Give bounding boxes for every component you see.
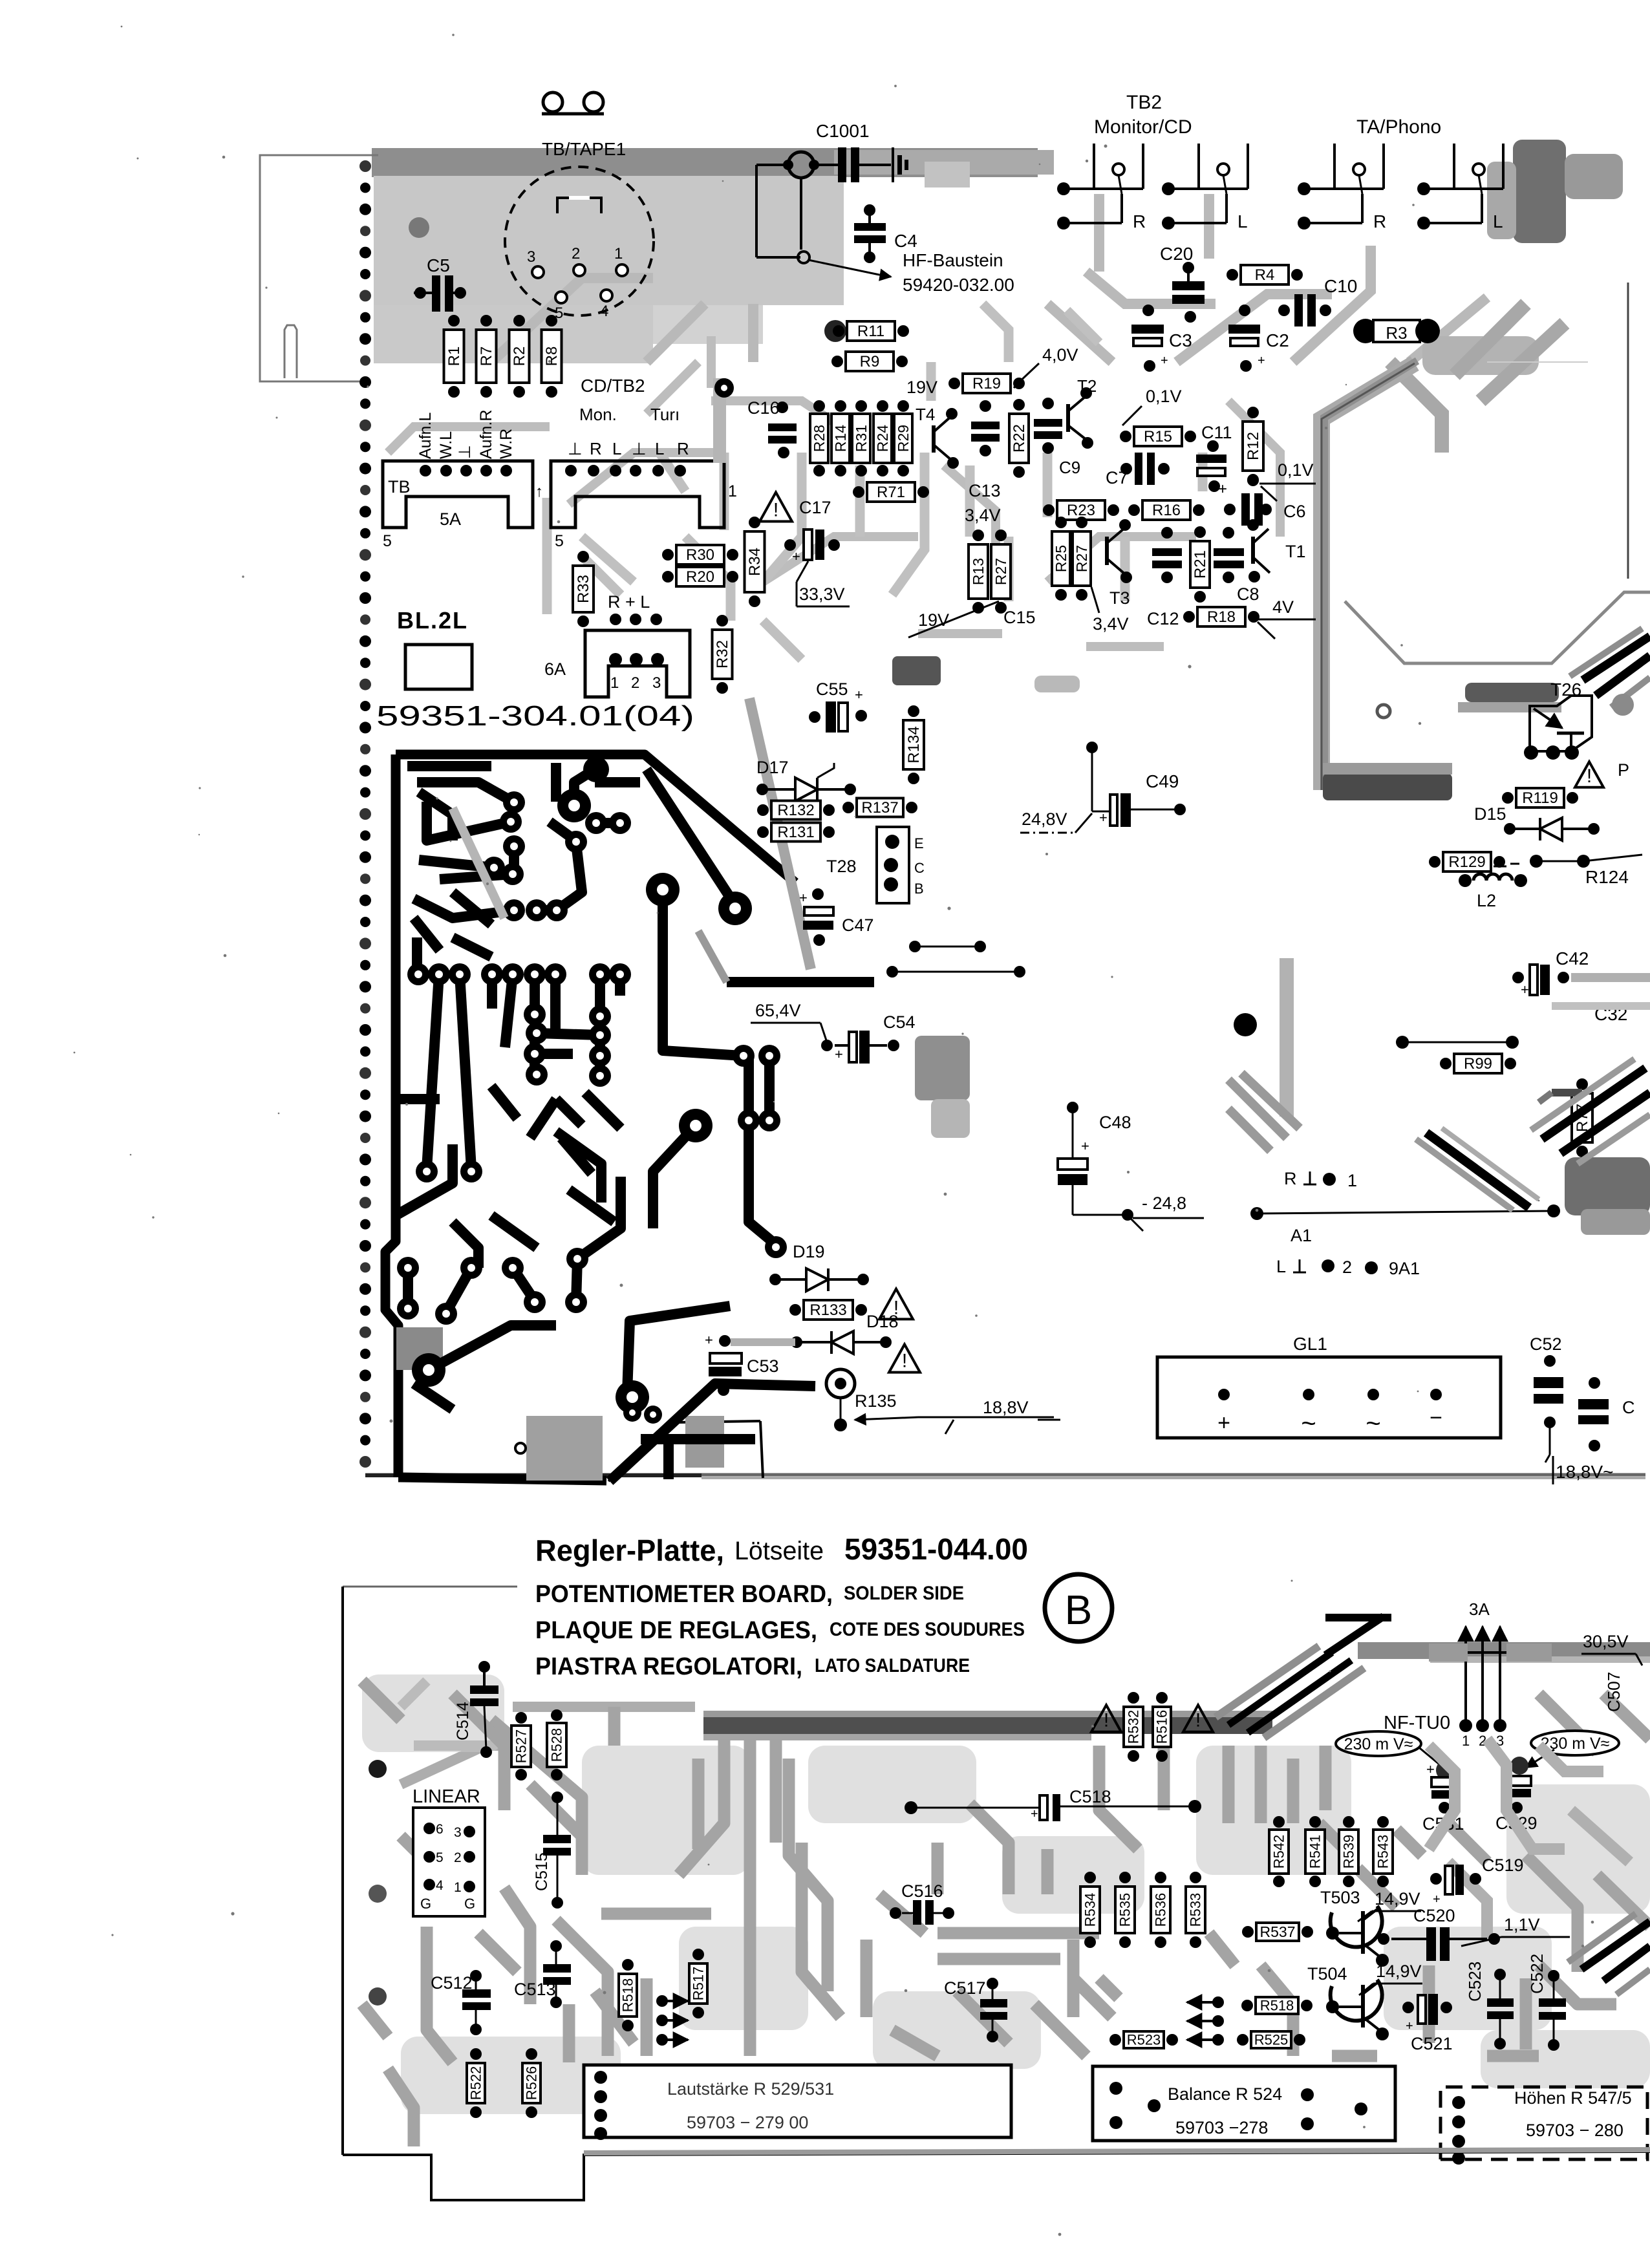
svg-text:TB/TAPE1: TB/TAPE1 bbox=[542, 139, 626, 159]
capacitor C3 electrolytic bbox=[1131, 325, 1164, 334]
dark blob left of R11 bbox=[824, 320, 846, 342]
svg-text:59351-044.00: 59351-044.00 bbox=[844, 1532, 1028, 1566]
svg-text:C513: C513 bbox=[514, 1980, 556, 1999]
svg-text:!: ! bbox=[773, 500, 778, 521]
wire pair mid 2 bbox=[886, 966, 898, 978]
svg-text:R33: R33 bbox=[575, 575, 592, 603]
top band right segment bbox=[1358, 1642, 1650, 1659]
connector TB 5A bbox=[383, 461, 533, 528]
svg-text:R522: R522 bbox=[468, 2066, 484, 2101]
svg-text:33,3V: 33,3V bbox=[799, 584, 845, 604]
svg-text:C54: C54 bbox=[883, 1012, 916, 1032]
gray traces NF area bbox=[1429, 1739, 1629, 1940]
svg-text:~: ~ bbox=[1366, 1409, 1380, 1438]
svg-text:4: 4 bbox=[436, 1878, 444, 1893]
svg-text:T28: T28 bbox=[826, 857, 857, 876]
svg-text:+: + bbox=[799, 890, 808, 906]
C1001 output symbol bbox=[892, 147, 894, 182]
capacitor C49 bbox=[1086, 742, 1098, 753]
resistor R13 bbox=[969, 530, 988, 614]
black diag stripes right bottom board bbox=[1581, 1921, 1650, 1981]
BL.2L box bbox=[405, 645, 472, 689]
capacitor C9 bbox=[1034, 419, 1062, 427]
connector CD/TB2 bbox=[551, 461, 724, 528]
resistor R20 bbox=[662, 567, 738, 586]
svg-text:W.L: W.L bbox=[437, 431, 455, 459]
svg-text:R21: R21 bbox=[1192, 550, 1209, 579]
resistor R14 bbox=[831, 400, 850, 476]
resistor R22 bbox=[1009, 399, 1029, 478]
svg-text:R534: R534 bbox=[1082, 1893, 1098, 1927]
svg-text:R: R bbox=[590, 439, 602, 458]
gray band vertical bbox=[1280, 958, 1294, 1117]
svg-text:TB2: TB2 bbox=[1126, 92, 1162, 113]
svg-text:4: 4 bbox=[600, 303, 608, 320]
svg-text:R: R bbox=[1284, 1169, 1297, 1188]
svg-text:C47: C47 bbox=[842, 915, 874, 935]
svg-text:W.R: W.R bbox=[497, 429, 515, 459]
svg-text:R27: R27 bbox=[1073, 545, 1090, 572]
svg-text:NF-TU0: NF-TU0 bbox=[1384, 1713, 1450, 1733]
oval 230mV left bbox=[1336, 1731, 1421, 1756]
svg-text:R133: R133 bbox=[809, 1301, 846, 1319]
resistor R542 bbox=[1269, 1816, 1289, 1887]
dark smudge top right bbox=[1513, 140, 1566, 243]
svg-text:C55: C55 bbox=[816, 679, 848, 699]
svg-text:R3: R3 bbox=[1386, 323, 1407, 343]
svg-text:Turı: Turı bbox=[650, 405, 680, 424]
svg-text:Balance R 524: Balance R 524 bbox=[1168, 2084, 1282, 2104]
svg-text:R516: R516 bbox=[1154, 1710, 1170, 1744]
svg-text:T3: T3 bbox=[1109, 588, 1130, 608]
connector 6A bbox=[585, 630, 690, 697]
svg-text:R129: R129 bbox=[1448, 853, 1485, 871]
svg-text:C520: C520 bbox=[1413, 1906, 1455, 1925]
svg-text:R + L: R + L bbox=[608, 592, 650, 612]
svg-text:Lautstärke R 529/531: Lautstärke R 529/531 bbox=[667, 2079, 834, 2099]
svg-text:R535: R535 bbox=[1117, 1893, 1133, 1927]
svg-text:C521: C521 bbox=[1411, 2034, 1453, 2053]
wire A1 bbox=[1250, 1207, 1263, 1220]
svg-text:TA/Phono: TA/Phono bbox=[1356, 116, 1441, 138]
svg-text:- 24,8: - 24,8 bbox=[1142, 1193, 1186, 1213]
black diag top right corner bottom board bbox=[1325, 1616, 1391, 1655]
svg-text:C516: C516 bbox=[901, 1881, 943, 1901]
resistor R534 bbox=[1080, 1872, 1100, 1948]
resistor R137 bbox=[842, 798, 917, 817]
svg-text:R135: R135 bbox=[855, 1391, 897, 1411]
resistor R132 bbox=[757, 801, 835, 820]
svg-text:59703 − 280: 59703 − 280 bbox=[1526, 2121, 1623, 2140]
board edge outline with slot (top left) bbox=[260, 155, 378, 381]
svg-text:3: 3 bbox=[454, 1825, 462, 1840]
svg-text:POTENTIOMETER BOARD,: POTENTIOMETER BOARD, bbox=[535, 1581, 833, 1608]
svg-text:R523: R523 bbox=[1127, 2032, 1161, 2048]
smudge under R3 bbox=[1422, 336, 1539, 375]
diag gray bands right of jacks bbox=[1390, 304, 1565, 453]
svg-text:59351-304.01(04): 59351-304.01(04) bbox=[376, 700, 694, 732]
svg-text:+: + bbox=[835, 1046, 843, 1062]
svg-text:R32: R32 bbox=[714, 640, 731, 669]
wire above R99 bbox=[1396, 1036, 1409, 1049]
svg-text:30,5V: 30,5V bbox=[1583, 1632, 1629, 1651]
svg-text:+: + bbox=[792, 548, 800, 564]
resistor R2 bbox=[509, 315, 530, 398]
svg-text:⊥: ⊥ bbox=[456, 445, 474, 459]
resistor R518 bbox=[619, 1959, 637, 2031]
svg-text:C53: C53 bbox=[747, 1356, 779, 1376]
warning triangle P bbox=[1575, 762, 1603, 787]
resistor R99 bbox=[1440, 1054, 1516, 1073]
resistor R536 bbox=[1151, 1872, 1170, 1948]
capacitor C529 electrolytic bbox=[1510, 1757, 1528, 1775]
svg-text:C16: C16 bbox=[747, 398, 780, 418]
svg-text:HF-Baustein: HF-Baustein bbox=[903, 250, 1003, 270]
svg-text:R527: R527 bbox=[513, 1729, 530, 1764]
svg-text:Aufn.R: Aufn.R bbox=[477, 410, 495, 459]
svg-text:3,4V: 3,4V bbox=[965, 506, 1001, 525]
wire pair mid bbox=[909, 941, 921, 952]
svg-text:C15: C15 bbox=[1003, 608, 1036, 627]
resistor R537 bbox=[1242, 1923, 1313, 1941]
svg-text:⊥: ⊥ bbox=[632, 439, 647, 458]
svg-text:C11: C11 bbox=[1201, 423, 1232, 442]
svg-text:59703 − 279 00: 59703 − 279 00 bbox=[687, 2113, 808, 2132]
svg-text:D15: D15 bbox=[1474, 804, 1506, 824]
resistor R32 bbox=[712, 615, 733, 694]
svg-text:2: 2 bbox=[631, 674, 639, 692]
svg-text:~: ~ bbox=[1301, 1409, 1316, 1438]
svg-text:R518: R518 bbox=[620, 1978, 636, 2013]
svg-text:R526: R526 bbox=[524, 2066, 540, 2101]
svg-text:R29: R29 bbox=[895, 425, 912, 452]
svg-text:19V: 19V bbox=[906, 378, 937, 397]
svg-text:CD/TB2: CD/TB2 bbox=[581, 376, 645, 396]
arrow pads left-pointing bbox=[1212, 1996, 1224, 2008]
svg-text:R22: R22 bbox=[1011, 424, 1028, 453]
svg-text:6A: 6A bbox=[544, 659, 566, 679]
coil L2 bbox=[1473, 874, 1512, 881]
svg-text:A1: A1 bbox=[1291, 1226, 1312, 1245]
svg-text:!: ! bbox=[1587, 765, 1592, 787]
svg-text:R532: R532 bbox=[1126, 1710, 1142, 1744]
svg-text:1: 1 bbox=[1462, 1733, 1470, 1749]
svg-text:R19: R19 bbox=[972, 375, 1001, 392]
HF-Baustein callout bbox=[808, 260, 879, 275]
pad R135 bbox=[826, 1369, 855, 1398]
resistor R24 bbox=[873, 400, 892, 476]
resistor R9 bbox=[831, 352, 908, 371]
resistor R27 bbox=[1073, 517, 1091, 601]
resistor R21 bbox=[1190, 526, 1210, 603]
warning triangle mid bbox=[760, 493, 792, 522]
svg-text:1: 1 bbox=[614, 245, 623, 262]
svg-text:−: − bbox=[1430, 1406, 1442, 1430]
module bottom dark edge bbox=[1323, 773, 1452, 800]
resistor R526 bbox=[522, 2048, 541, 2118]
svg-text:R18: R18 bbox=[1207, 608, 1236, 626]
resistor R30 bbox=[662, 545, 738, 564]
svg-text:+: + bbox=[1099, 809, 1108, 826]
svg-text:Höhen R 547/5: Höhen R 547/5 bbox=[1514, 2088, 1632, 2108]
resistor R23 bbox=[1043, 500, 1119, 520]
svg-text:T504: T504 bbox=[1307, 1964, 1347, 1984]
dark smudge right of A1 bbox=[1565, 1157, 1650, 1215]
capacitor C6 bbox=[1241, 493, 1250, 526]
svg-text:2: 2 bbox=[572, 245, 580, 262]
svg-text:C20: C20 bbox=[1160, 244, 1193, 264]
svg-text:Aufn.L: Aufn.L bbox=[416, 412, 434, 459]
left edge pads bottom board bbox=[369, 1760, 387, 1778]
svg-text:R13: R13 bbox=[970, 558, 987, 585]
warning triangle bottom 1 bbox=[1091, 1705, 1121, 1731]
gray fan top left bottom board bbox=[401, 1681, 695, 1784]
svg-text:Monitor/CD: Monitor/CD bbox=[1094, 116, 1192, 138]
capacitor C531 electrolytic bbox=[1436, 1760, 1457, 1781]
DIN pins bbox=[532, 266, 544, 278]
warning triangle bottom 2 bbox=[1183, 1705, 1213, 1731]
resistor R543 bbox=[1373, 1816, 1393, 1887]
trace block pads bbox=[397, 756, 787, 1453]
svg-text:COTE DES SOUDURES: COTE DES SOUDURES bbox=[830, 1619, 1025, 1640]
svg-text:R525: R525 bbox=[1254, 2032, 1289, 2048]
svg-text:C507: C507 bbox=[1604, 1672, 1623, 1712]
resistor R533 bbox=[1186, 1872, 1205, 1948]
svg-text:+: + bbox=[1426, 1761, 1435, 1777]
resistor R532 bbox=[1124, 1692, 1143, 1762]
svg-text:C5: C5 bbox=[427, 255, 450, 275]
label 0,1V at R12 bbox=[1247, 475, 1259, 486]
svg-text:D19: D19 bbox=[793, 1242, 825, 1261]
jack TA R bbox=[1298, 144, 1386, 231]
svg-text:PLAQUE DE REGLAGES,: PLAQUE DE REGLAGES, bbox=[535, 1617, 817, 1644]
svg-text:R99: R99 bbox=[1464, 1055, 1492, 1073]
svg-text:R518: R518 bbox=[1260, 1998, 1294, 2014]
svg-text:C515: C515 bbox=[533, 1852, 551, 1891]
resistor R25 bbox=[1052, 517, 1070, 601]
edge dot column bbox=[359, 160, 371, 1468]
capacitor C13 bbox=[971, 422, 1000, 429]
svg-text:R25: R25 bbox=[1053, 545, 1069, 572]
svg-text:R1: R1 bbox=[445, 347, 463, 367]
black pad mid bbox=[1234, 1013, 1257, 1036]
svg-text:R14: R14 bbox=[832, 425, 849, 452]
resistor R11 bbox=[833, 321, 909, 341]
resistor R33 bbox=[573, 551, 594, 627]
svg-text:R8: R8 bbox=[543, 347, 561, 367]
svg-text:+: + bbox=[1218, 480, 1227, 498]
svg-text:LINEAR: LINEAR bbox=[412, 1786, 480, 1807]
resistor R518 bbox=[1241, 1997, 1312, 2014]
svg-text:1,1V: 1,1V bbox=[1504, 1915, 1540, 1934]
resistor R1 bbox=[444, 315, 464, 398]
right board edge line bbox=[1627, 283, 1629, 579]
svg-text:4,0V: 4,0V bbox=[1042, 345, 1078, 365]
svg-text:L: L bbox=[1493, 211, 1503, 231]
svg-text:1: 1 bbox=[1347, 1171, 1357, 1190]
svg-text:+: + bbox=[1521, 981, 1529, 998]
resistor R4 bbox=[1227, 265, 1303, 284]
resistor R535 bbox=[1115, 1872, 1135, 1948]
resistor R8 bbox=[542, 315, 562, 398]
wire 18,8V bbox=[855, 1417, 918, 1420]
via pad above R30 bbox=[713, 378, 726, 463]
jack TA L bbox=[1417, 144, 1503, 231]
resistor R528 bbox=[547, 1709, 566, 1781]
resistor R18 bbox=[1183, 607, 1259, 626]
potentiometer box Balance bbox=[1093, 2066, 1395, 2141]
resistor R29 bbox=[894, 400, 912, 476]
resistor R7 bbox=[477, 315, 497, 398]
svg-text:R27: R27 bbox=[992, 558, 1009, 585]
svg-text:GL1: GL1 bbox=[1293, 1334, 1327, 1354]
svg-text:B: B bbox=[914, 881, 924, 897]
svg-text:65,4V: 65,4V bbox=[755, 1001, 801, 1020]
svg-text:+: + bbox=[855, 687, 863, 703]
svg-text:B: B bbox=[1065, 1587, 1093, 1633]
oval 230mV right bbox=[1531, 1731, 1619, 1755]
svg-text:L: L bbox=[1276, 1257, 1286, 1276]
svg-text:R2: R2 bbox=[511, 347, 528, 367]
svg-text:5A: 5A bbox=[440, 509, 461, 529]
transistor T3 bbox=[1105, 537, 1109, 565]
resistor R522 bbox=[467, 2048, 485, 2118]
resistor R12 bbox=[1243, 407, 1263, 486]
black chevron stripes near T26 bbox=[1583, 636, 1650, 696]
capacitor C54 electrolytic bbox=[849, 1032, 857, 1062]
svg-text:C: C bbox=[914, 860, 925, 876]
svg-text:59420-032.00: 59420-032.00 bbox=[903, 275, 1014, 295]
bottom board outline bbox=[343, 1586, 517, 1588]
gray trace C53 to D18 bbox=[731, 1338, 795, 1346]
svg-text:18,8V: 18,8V bbox=[983, 1398, 1029, 1417]
svg-text:R12: R12 bbox=[1245, 432, 1262, 460]
svg-text:R4: R4 bbox=[1255, 266, 1275, 284]
trace block gray fills bbox=[396, 1327, 443, 1370]
svg-text:R541: R541 bbox=[1307, 1835, 1323, 1869]
resistor R28 bbox=[810, 400, 828, 476]
resistor R129 bbox=[1429, 852, 1505, 872]
svg-text:3A: 3A bbox=[1469, 1599, 1490, 1619]
svg-text:5: 5 bbox=[436, 1850, 444, 1865]
copper trace block outline bbox=[385, 754, 795, 1481]
potentiometer box Lautstaerke bbox=[584, 2065, 1011, 2137]
svg-text:2: 2 bbox=[454, 1850, 462, 1865]
svg-text:!: ! bbox=[1195, 1710, 1201, 1731]
svg-text:6: 6 bbox=[436, 1822, 444, 1837]
svg-text:C: C bbox=[1622, 1398, 1635, 1417]
potentiometer box Hoehen dashed bbox=[1441, 2087, 1647, 2159]
svg-text:R30: R30 bbox=[686, 546, 714, 564]
svg-text:R132: R132 bbox=[777, 802, 814, 819]
svg-text:R134: R134 bbox=[905, 726, 923, 763]
resistor R134 bbox=[903, 705, 924, 784]
resistor R27 bbox=[991, 530, 1011, 614]
svg-text:L2: L2 bbox=[1477, 891, 1496, 910]
svg-text:R20: R20 bbox=[686, 568, 714, 586]
svg-text:14,9V: 14,9V bbox=[1376, 1962, 1422, 1981]
svg-text:C8: C8 bbox=[1237, 584, 1259, 604]
svg-text:R16: R16 bbox=[1152, 502, 1181, 519]
svg-text:C3: C3 bbox=[1169, 330, 1192, 350]
svg-text:C17: C17 bbox=[799, 498, 831, 517]
resistor R133 bbox=[789, 1300, 867, 1320]
svg-text:C514: C514 bbox=[454, 1702, 472, 1740]
resistor R525 bbox=[1237, 2031, 1305, 2048]
big gray pad bbox=[409, 217, 429, 238]
capacitor C51 bbox=[1578, 1399, 1609, 1409]
svg-text:+: + bbox=[705, 1332, 713, 1348]
svg-text:L: L bbox=[1237, 211, 1248, 231]
svg-text:C13: C13 bbox=[969, 481, 1001, 500]
capacitor C4 bbox=[864, 204, 875, 216]
extra gray traces cluster bbox=[547, 304, 1203, 659]
svg-text:R536: R536 bbox=[1153, 1893, 1169, 1927]
svg-text:4V: 4V bbox=[1272, 597, 1294, 617]
svg-text:1: 1 bbox=[454, 1880, 462, 1895]
svg-text:E: E bbox=[914, 835, 924, 851]
svg-text:R137: R137 bbox=[861, 799, 898, 817]
dark band right of module bbox=[1465, 683, 1559, 702]
svg-text:R31: R31 bbox=[853, 425, 870, 452]
svg-text:+: + bbox=[1258, 354, 1265, 368]
svg-text:G: G bbox=[420, 1896, 431, 1912]
capacitor C514 bbox=[470, 1685, 498, 1694]
resistor R71 bbox=[853, 482, 929, 502]
svg-text:R131: R131 bbox=[777, 824, 814, 841]
gray diagonals lower left heatsink bbox=[1228, 1073, 1300, 1151]
svg-text:⊥: ⊥ bbox=[568, 439, 583, 458]
svg-text:R539: R539 bbox=[1341, 1835, 1357, 1869]
top band diagonal rise bbox=[1228, 1653, 1351, 1733]
svg-text:+: + bbox=[1433, 1892, 1441, 1907]
svg-text:LATO SALDATURE: LATO SALDATURE bbox=[815, 1655, 970, 1676]
capacitor C12 bbox=[1152, 548, 1182, 556]
svg-text:R517: R517 bbox=[691, 1967, 707, 2001]
svg-text:D18: D18 bbox=[866, 1312, 899, 1331]
svg-text:C6: C6 bbox=[1283, 502, 1306, 521]
svg-text:D17: D17 bbox=[756, 758, 789, 777]
resistor R527 bbox=[511, 1712, 531, 1781]
capacitor C521 electrolytic bbox=[1418, 1995, 1426, 2024]
svg-text:5: 5 bbox=[383, 532, 392, 550]
svg-text:L: L bbox=[612, 439, 621, 458]
svg-text:G: G bbox=[464, 1896, 475, 1912]
svg-text:C2: C2 bbox=[1266, 330, 1289, 350]
svg-text:!: ! bbox=[1104, 1710, 1109, 1731]
resistor R16 bbox=[1128, 500, 1205, 520]
svg-text:C4: C4 bbox=[894, 231, 917, 251]
svg-text:R34: R34 bbox=[746, 548, 764, 576]
svg-text:1: 1 bbox=[610, 674, 619, 692]
svg-text:C12: C12 bbox=[1147, 609, 1179, 628]
svg-text:R542: R542 bbox=[1271, 1835, 1287, 1869]
svg-text:C49: C49 bbox=[1146, 771, 1179, 791]
svg-text:R11: R11 bbox=[857, 323, 884, 340]
svg-text:Regler-Platte,: Regler-Platte, bbox=[535, 1534, 724, 1567]
resistor R131 bbox=[757, 823, 835, 842]
svg-text:Mon.: Mon. bbox=[579, 405, 617, 424]
circled B bbox=[1045, 1574, 1112, 1642]
svg-text:3: 3 bbox=[652, 674, 661, 692]
svg-text:R119: R119 bbox=[1522, 789, 1558, 807]
capacitor C2 electrolytic bbox=[1228, 325, 1260, 334]
arrow pads right-pointing bbox=[656, 1995, 668, 2007]
resistor R3 with blobs bbox=[1353, 319, 1378, 343]
diag stripes right edge near C32 bbox=[1542, 1068, 1650, 1153]
svg-text:SOLDER SIDE: SOLDER SIDE bbox=[844, 1583, 964, 1604]
resistor R34 bbox=[745, 517, 765, 607]
